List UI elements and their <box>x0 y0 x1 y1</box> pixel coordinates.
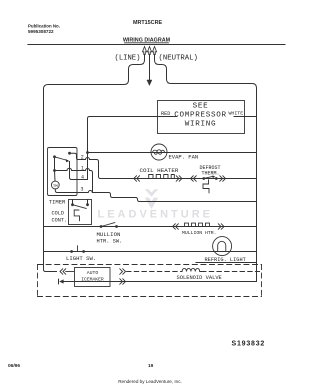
svg-text:SOLENOID VALVE: SOLENOID VALVE <box>177 275 222 281</box>
svg-text:WHITE: WHITE <box>229 110 244 116</box>
bulb filament <box>218 241 226 251</box>
svg-text:MULLION HTR.: MULLION HTR. <box>182 230 217 236</box>
svg-text:06/96: 06/96 <box>8 363 20 369</box>
wire pin1 with hop down <box>77 169 93 193</box>
timer motor TM <box>51 181 59 189</box>
icemaker dashed box bottom <box>38 296 262 298</box>
plug prong middle <box>147 47 151 55</box>
svg-text:SEE: SEE <box>193 103 209 111</box>
solenoid valve coil L1 <box>181 268 202 271</box>
timer wire pin2 inside <box>70 153 78 159</box>
timer wire TM top <box>54 171 57 182</box>
wire left loop from plug to left bus <box>44 54 145 89</box>
wire light row <box>44 251 257 253</box>
header rule <box>28 44 285 46</box>
connector arrow defrost left <box>191 176 197 181</box>
connector arrow icemaker top left <box>60 269 66 274</box>
wire icemaker top row dashed right <box>202 271 260 273</box>
defrost therm contact right <box>215 177 218 180</box>
plug prong left (LINE) <box>142 47 146 55</box>
compressor box U1 <box>158 101 245 134</box>
wire mullion row <box>44 226 257 228</box>
svg-text:HTR. SW.: HTR. SW. <box>97 238 123 244</box>
defrost therm contact left <box>202 177 205 180</box>
svg-text:WIRING: WIRING <box>185 121 217 129</box>
cold control box <box>69 200 92 225</box>
resistor mullion heater <box>185 223 210 226</box>
svg-text:TIMER: TIMER <box>49 198 66 205</box>
timer wire TM to pin3 <box>55 189 77 193</box>
svg-text:MULLION: MULLION <box>97 231 121 238</box>
defrost therm blade <box>204 176 214 178</box>
plug prong right (NEUTRAL) <box>152 47 156 55</box>
wire to icemaker box <box>66 271 74 273</box>
icemaker dashed box right <box>261 265 263 297</box>
connector arrow defrost right <box>220 176 226 181</box>
title underline <box>125 42 169 44</box>
timer wire common vertical <box>54 157 56 171</box>
svg-text:COMPRESSOR: COMPRESSOR <box>174 112 227 120</box>
svg-text:19: 19 <box>148 363 154 369</box>
node junction evap row <box>86 151 89 154</box>
wire red row into compressor <box>88 117 178 180</box>
wire white row compressor to right bus <box>234 116 257 118</box>
svg-text:COIL HEATER: COIL HEATER <box>140 167 179 174</box>
cold control blade <box>73 205 87 209</box>
timer contact node pin2 <box>68 152 71 155</box>
resistor coil heater <box>149 175 175 179</box>
wire right loop from plug to right bus <box>155 54 257 88</box>
evap fan winding <box>153 150 165 154</box>
mullion switch contact right <box>115 225 118 228</box>
connector arrow icemaker bottom right <box>120 279 126 284</box>
wire icemaker bottom row <box>63 281 257 283</box>
timer wire pin1 inside with hop <box>55 168 78 170</box>
svg-text:AUTO: AUTO <box>87 270 99 276</box>
defrost therm capillary <box>203 180 209 193</box>
timer contact node pin1 common <box>53 169 56 172</box>
watermark logo chevron <box>145 189 158 197</box>
svg-text:3: 3 <box>81 187 84 193</box>
right bus wire <box>256 88 258 282</box>
svg-text:(NEUTRAL): (NEUTRAL) <box>159 55 198 63</box>
wire evap fan row <box>88 152 257 154</box>
timer wire pin4 vertical inside <box>70 162 78 180</box>
light switch plunger <box>77 246 79 251</box>
cold control contact left <box>71 203 74 206</box>
ground wire from middle prong <box>149 54 151 80</box>
mullion switch contact left <box>100 225 103 228</box>
wire pin2 to coil heater row <box>78 158 257 179</box>
svg-text:REFRIG. LIGHT: REFRIG. LIGHT <box>205 257 246 263</box>
wire pin4 stub <box>77 179 88 181</box>
wire pin3 row <box>77 191 257 202</box>
icemaker dashed box left <box>37 265 39 297</box>
svg-text:MRT15CRE: MRT15CRE <box>133 20 162 26</box>
icemaker dashed box top <box>38 264 262 266</box>
svg-text:EVAP. FAN: EVAP. FAN <box>169 153 199 160</box>
svg-text:(LINE): (LINE) <box>115 55 141 63</box>
svg-text:S193832: S193832 <box>232 341 266 348</box>
cold control capillary <box>74 210 79 221</box>
svg-text:5995308722: 5995308722 <box>28 29 54 34</box>
svg-text:LEADVENTURE: LEADVENTURE <box>98 209 214 221</box>
auto icemaker box <box>75 268 111 287</box>
timer contact node top-left <box>53 155 56 158</box>
left bus wire down to icemaker row <box>44 89 57 272</box>
svg-text:LIGHT SW.: LIGHT SW. <box>66 255 96 262</box>
light switch contact left <box>70 250 73 253</box>
evap fan motor M1 <box>151 144 167 160</box>
wire right stub above dashed box <box>196 262 257 264</box>
cold control contact right <box>86 203 89 206</box>
svg-text:CONT.: CONT. <box>52 218 68 224</box>
mullion switch blade <box>101 223 115 227</box>
connector arrow coil heater left <box>134 176 140 181</box>
refrigerator light bulb <box>213 237 232 256</box>
connector arrow icemaker bottom left terminal <box>58 279 60 284</box>
svg-text:THERM.: THERM. <box>202 171 220 177</box>
connector arrow coil heater right <box>176 176 182 181</box>
svg-text:COLD: COLD <box>52 211 64 217</box>
connector arrow mullion right <box>218 224 224 229</box>
svg-text:Rendered by LeadVenture, Inc.: Rendered by LeadVenture, Inc. <box>118 379 182 384</box>
wire icemaker top row dashed middle <box>127 271 181 273</box>
connector arrow icemaker top right <box>120 269 126 274</box>
timer box <box>48 148 78 196</box>
light switch contact right <box>82 250 85 253</box>
ground arrow <box>147 80 152 85</box>
timer blade with arrow <box>55 157 68 161</box>
svg-text:TM: TM <box>53 185 58 189</box>
connector arrow mullion left <box>173 224 179 229</box>
